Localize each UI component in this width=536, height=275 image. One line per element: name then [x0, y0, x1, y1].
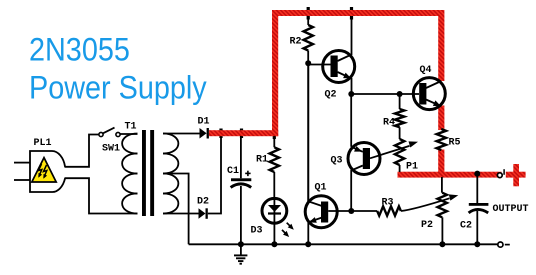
C1 plus sign [245, 172, 250, 174]
svg-text:P1: P1 [406, 162, 418, 173]
wire plug to switch and transformer [65, 135, 99, 167]
resistor R2 [307, 16, 309, 25]
transformer T1 primary [122, 134, 137, 154]
svg-text:C2: C2 [460, 221, 472, 232]
potentiometer P2 [441, 177, 443, 193]
secondary bottom wire to D2 [163, 213, 199, 215]
junction D3/bus [271, 241, 277, 247]
wire node to Q1 collector [307, 63, 309, 201]
red plus marker vertical bar [513, 164, 519, 186]
transistor Q3 (PNP) [348, 143, 380, 175]
wire switch to transformer [120, 133, 137, 135]
ground symbol [240, 244, 242, 255]
junction C2/red output [474, 171, 480, 177]
transistor Q1 [305, 196, 337, 228]
junction Q2 base node [305, 60, 311, 66]
junction Q1 base node [348, 208, 354, 214]
potentiometer P1 [395, 139, 404, 165]
switch SW1 [99, 132, 103, 136]
diode D2 [199, 208, 206, 219]
center tap wire to ground bus [163, 174, 189, 245]
junction Q2 emitter node [348, 91, 354, 97]
negative output terminal [498, 242, 503, 247]
svg-text:R1: R1 [256, 155, 268, 166]
capacitor C1 [240, 136, 242, 178]
transformer T1 secondary [163, 134, 178, 154]
positive terminal tick [503, 169, 505, 175]
red wire: D1 to corner [209, 130, 278, 136]
transistor Q2 [323, 51, 355, 83]
plug PL1 [14, 162, 30, 164]
svg-text:Q1: Q1 [315, 183, 327, 194]
junction Q2 collector/red top [350, 7, 353, 20]
diode D1 [200, 128, 207, 139]
ground bus wire [189, 243, 498, 245]
wire D2 cathode up to red node [208, 136, 221, 214]
svg-text:OUTPUT: OUTPUT [493, 204, 529, 215]
junction C1/bus [238, 241, 244, 247]
transformer core [142, 130, 146, 216]
wire to Q4 base [351, 93, 419, 95]
svg-text:R3: R3 [382, 198, 394, 209]
svg-text:D1: D1 [198, 117, 210, 128]
svg-text:SW1: SW1 [102, 144, 120, 155]
svg-text:P2: P2 [421, 220, 433, 231]
svg-text:T1: T1 [125, 122, 137, 133]
capacitor C2 [476, 175, 478, 203]
LED D3 [262, 198, 287, 223]
svg-text:Q2: Q2 [325, 90, 337, 101]
red wire: top horizontal [272, 10, 444, 16]
resistor R4 [399, 94, 401, 109]
resistor R1 [273, 136, 275, 147]
junction P2/bus [439, 241, 445, 247]
svg-text:R5: R5 [449, 138, 461, 149]
red wire: output stub to plus [506, 172, 526, 178]
junction Q1 emitter/bus [305, 241, 311, 247]
svg-text:C1: C1 [227, 166, 239, 177]
red wire: output horizontal [398, 172, 502, 178]
transistor Q4 [413, 78, 445, 110]
svg-text:2N3055: 2N3055 [29, 32, 130, 68]
svg-text:D2: D2 [197, 197, 209, 208]
svg-text:R4: R4 [383, 118, 395, 129]
svg-text:Power Supply: Power Supply [29, 70, 207, 106]
junction D2/red [219, 129, 222, 139]
svg-text:PL1: PL1 [34, 138, 52, 149]
junction R2/red top [307, 7, 310, 20]
red wire: left vertical riser [272, 10, 278, 136]
svg-text:D3: D3 [251, 226, 263, 237]
junction C2/bus [474, 241, 480, 247]
P2 wiper from R3 [401, 198, 450, 211]
secondary top wire to D1 [163, 133, 200, 135]
junction C1/red [240, 129, 243, 139]
svg-text:Q3: Q3 [331, 156, 343, 167]
red wire: R5 to output line [438, 150, 444, 177]
resistor R3 [351, 210, 377, 212]
LED arrows [287, 223, 293, 229]
resistor R5 [437, 129, 446, 150]
warning triangle [32, 158, 56, 182]
positive output terminal circle [497, 173, 502, 178]
red wire: Q4 collector [438, 10, 444, 81]
junction R4 top [397, 91, 403, 97]
svg-text:Q4: Q4 [420, 65, 432, 76]
svg-text:R2: R2 [290, 37, 302, 48]
junction R1/red corner [273, 131, 276, 140]
red wire: Q4 emitter to R5 [438, 106, 444, 131]
Q3 base to P1 wiper [370, 146, 410, 158]
